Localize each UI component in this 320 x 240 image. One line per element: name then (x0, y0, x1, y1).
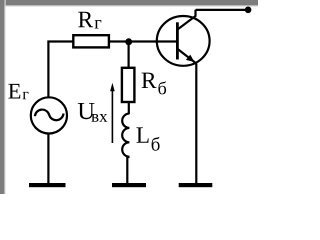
window border top bar (0, 0, 258, 5)
transistor collector line (178, 10, 196, 30)
label Eг (8, 84, 20, 99)
emitter wire down to ground (195, 64, 197, 185)
sine wave inside source (35, 110, 64, 121)
output terminal dot (245, 7, 252, 14)
wire Eг source bottom to ground (47, 133, 49, 185)
window border left bar (0, 0, 4, 194)
label Rб (142, 73, 157, 88)
collector wire to output terminal (196, 9, 247, 11)
transistor emitter line with arrow (178, 49, 197, 64)
AC generator source Eг (31, 97, 67, 133)
ground symbol under emitter (179, 183, 213, 187)
input voltage arrow Uвх (111, 86, 113, 143)
ground symbol under Lб (112, 183, 146, 187)
transistor VT1 body circle (157, 16, 210, 66)
label Rг (78, 12, 93, 27)
inductor Lб (122, 114, 129, 157)
wire node down to Rб (128, 42, 130, 68)
transistor base bar (176, 22, 179, 59)
wire Rб to Lб (128, 102, 130, 114)
wire node to transistor base (129, 40, 177, 42)
wire from Eг source top up and right to Rг (48, 42, 73, 98)
wire Rг to node (109, 40, 129, 42)
wire Lб to ground (127, 157, 129, 184)
resistor Rг (73, 35, 109, 47)
label Uвх (78, 103, 95, 119)
resistor Rб (122, 68, 134, 102)
label Lб (136, 127, 148, 142)
ground symbol under Eг (29, 183, 66, 187)
node junction dot (125, 38, 132, 45)
emitter arrowhead (186, 55, 195, 62)
